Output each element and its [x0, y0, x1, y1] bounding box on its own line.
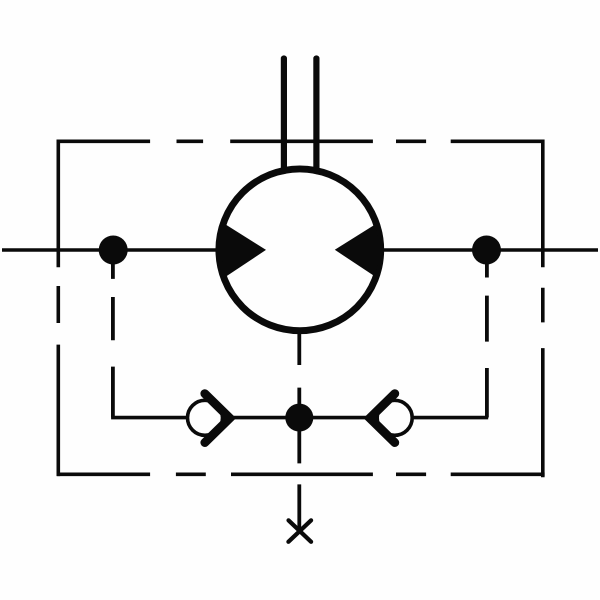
wire: double drain/shaft lines at top, right line — [313, 59, 319, 172]
check valve CV1: ball circle — [188, 400, 223, 435]
enclosure: dashed boundary box, left edge — [56, 140, 60, 477]
drain symbol: X mark stroke 2 — [288, 520, 311, 542]
enclosure: dashed boundary box, top edge — [58, 140, 543, 144]
wire: double drain/shaft lines at top, left line — [281, 59, 287, 172]
wire: dashed pilot line below node B — [485, 262, 489, 418]
node A: left port junction dot — [99, 236, 128, 265]
check valve CV2: seat chevron — [370, 394, 395, 443]
flow arrow right (filled triangle pointing left) — [335, 225, 379, 276]
check valve CV2: ball circle — [377, 400, 412, 435]
wire: lower shuttle line, left segment — [111, 416, 186, 420]
drain symbol: X mark stroke 1 — [289, 520, 312, 542]
wire: dashed pilot line below node A — [111, 262, 115, 418]
flow arrow left (filled triangle pointing right) — [222, 225, 266, 277]
node C: center drain junction dot — [285, 404, 313, 432]
node B: right port junction dot — [472, 236, 501, 265]
hydraulic motor M1: circle body — [219, 169, 381, 331]
wire: main horizontal port line, right section — [379, 248, 598, 252]
enclosure: dashed boundary box, right edge — [541, 140, 545, 478]
wire: dashed case-drain line from motor to node C and down — [297, 334, 301, 529]
enclosure: dashed boundary box, bottom edge — [57, 472, 544, 476]
check valve CV1: seat chevron — [205, 394, 230, 443]
wire: main horizontal port line, left section — [2, 248, 221, 252]
wire: lower shuttle line, right segment — [413, 416, 488, 420]
wire: lower shuttle line, center segment — [228, 416, 371, 420]
